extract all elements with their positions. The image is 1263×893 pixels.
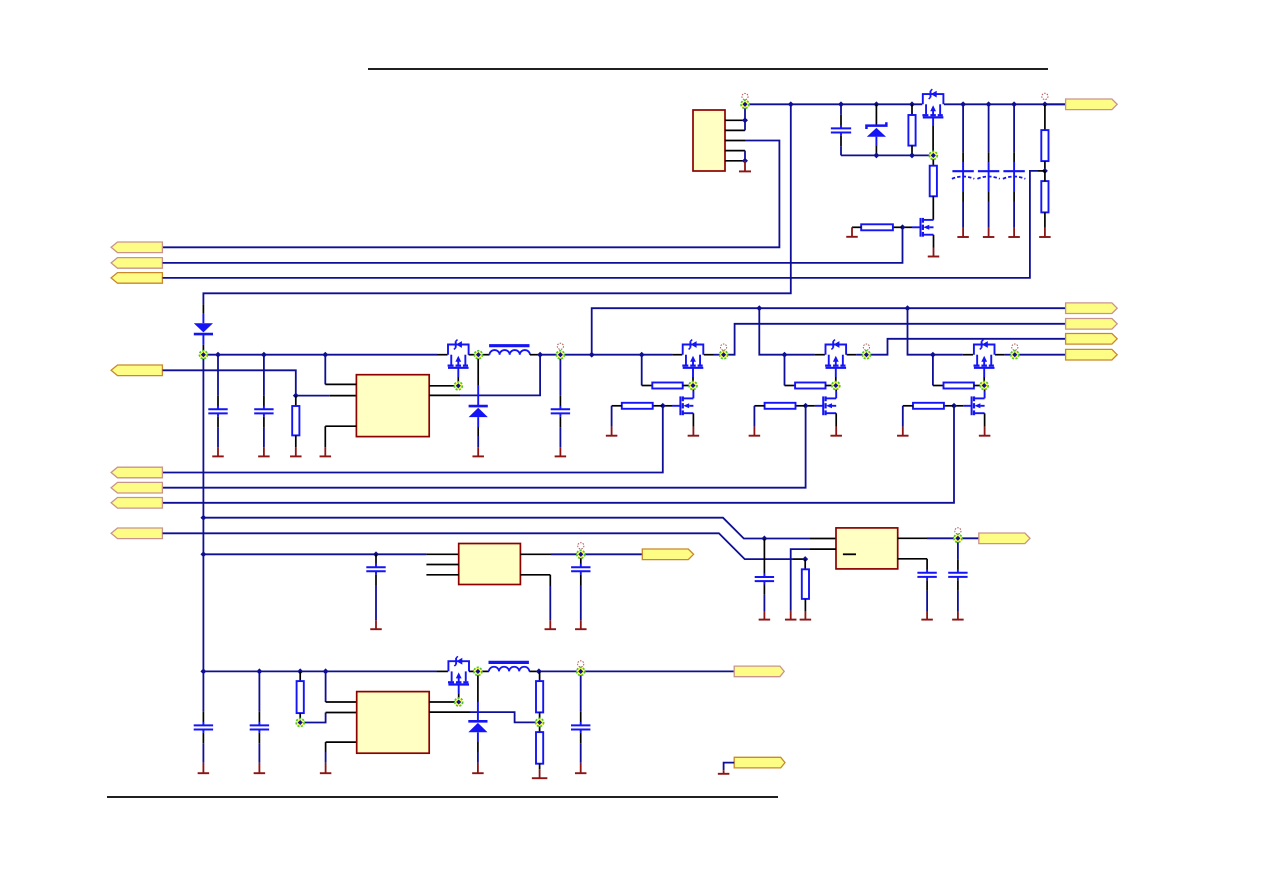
wire U6 pin 3 to ground [326,741,357,743]
port VOUT-C (right) [642,549,693,560]
transistor Q2 (N-MOSFET gate driver) [921,218,934,237]
junction Q1b gate [660,403,666,409]
resistor R9 (divider bottom) [1041,181,1048,212]
node Q3 gate [454,382,462,390]
wire buck output rail [540,354,592,356]
junction on pin 5 [742,158,748,164]
ground at R10 [290,447,302,456]
resistor R6 [932,155,934,165]
junction R12 top [297,668,303,674]
wire R2b to ground [753,406,755,427]
transistor Q1a (P-MOSFET load switch) [682,340,703,368]
no-ERC marker above SW2 output [863,344,869,350]
wire Q4 drain to SW node [469,670,478,672]
node U5 output [954,534,962,542]
wire U6 gate drive [429,701,455,703]
resistor R2b (gate pull-down) [796,405,806,407]
junction C5 [960,101,966,107]
wire U6 feedback [429,711,470,713]
port P1 (left, row 1) [111,242,162,253]
ground at C6 [983,228,995,237]
junction Q2b gate [803,403,809,409]
wire Q2 gate [912,226,921,228]
wire U3 pin 1 to rail [324,355,326,385]
node Q1 gate [929,151,937,159]
capacitor C16 [194,671,213,762]
port OUT3 (right) [1066,334,1118,345]
inductor L1 [478,354,489,356]
wire U5 sense pin [898,558,927,560]
transistor Q4 (P-MOSFET buck switch B) [448,656,469,684]
ground at R3b [897,427,909,436]
ground at U3 [320,447,332,456]
capacitor C6 (bulk) [988,104,990,152]
port EN1 (left) [111,467,162,478]
node Q1a gate [689,382,697,390]
wire U4 output to port [581,553,643,555]
wire Q2b drain to gate node [835,391,837,398]
diode D1 (input) [194,323,213,334]
ground at U6 [320,763,332,773]
ground at C5 [957,228,969,237]
junction R5 bottom [909,152,915,158]
wire top rail left segment [745,103,922,105]
node VIN-A [741,100,749,108]
junction D4 top [873,101,879,107]
port OUT2 (right) [1066,319,1118,330]
title block bottom rule [107,796,778,798]
ground at C7 [1008,228,1020,237]
node SW (switch node) [474,351,482,359]
ground at R7 [846,227,858,237]
node SW1 output [720,351,728,359]
node input rail [199,351,207,359]
ground at Q3b [979,427,991,436]
port EN4 (left) [111,528,162,539]
junction C9 [261,352,267,358]
junction bus to LDO A input [200,551,206,557]
junction bus to LDO B input [200,515,206,521]
capacitor C7 (bulk) [1013,104,1015,152]
junction R11 [802,556,808,562]
port EN3 (left) [111,498,162,509]
node SW-B [474,667,482,675]
wire Q1b drain to gate node [692,391,694,398]
no-ERC marker above SW3 output [1012,344,1018,350]
junction U6 pin1 riser [323,668,329,674]
wire R12 to U6 pin 2 [300,713,325,723]
capacitor C8 [208,355,227,448]
ground at R9 [1039,228,1051,237]
wire top rail right segment [944,103,1066,105]
junction on pin 1 [742,117,748,123]
wire enable net SW1 [163,406,663,473]
wire rail to load switch 1 [592,354,673,356]
resistor R13 (feedback top) [539,671,541,681]
wire bottom buck output rail [539,670,734,672]
ground at U5 pin2 [785,611,797,620]
wire divider sense to port P3 net [1038,170,1045,172]
wire Q2b source to ground [835,413,837,426]
wire SW3 output to port row 4 [1015,354,1066,356]
ground at D3 [472,763,484,773]
junction SW1 gate resistor tap [639,352,645,358]
pin 5 of J1 [725,160,745,162]
wire U5 pin 2 to ground [810,548,836,550]
junction R5 top [909,101,915,107]
title block top rule [368,68,1048,70]
transistor Q1 (P-MOSFET high side) [922,89,943,117]
marking inside U5 [843,553,856,555]
ground at Q2b [830,427,842,436]
port P2 (left, row 2) [111,258,162,269]
ground at C12 [921,611,933,620]
resistor R7 (gate pull-down) [893,226,903,228]
resistor R8 (divider top) [1044,104,1046,130]
wire Q2a output lead [847,354,857,356]
ground at C13 [952,611,964,620]
node Q4 gate [455,698,463,706]
ground at Q2 [928,248,940,257]
pin 1 of J1 [725,119,745,121]
wire Q1 gate [932,118,934,126]
capacitor C11 (LDO B input) [763,539,765,574]
wire Q1b source to ground [692,413,694,426]
resistor R12 [299,671,301,681]
ground at R1b [606,427,618,436]
no-ERC marker above output [578,661,584,667]
port VIN (left) [111,365,162,376]
wire U3 gate drive output [429,385,455,387]
capacitor C14 (LDO A input) [366,554,385,620]
junction Q3b gate [951,403,957,409]
transistor Q3a (P-MOSFET load switch) [974,340,995,368]
ground at C8 [212,447,224,456]
capacitor C18 (output) [571,671,590,762]
port OUT1 (right) [1066,303,1118,314]
wire SW1 output to port row 2 [724,324,1066,355]
wire EN4 to LDO B enable [163,533,793,559]
port VOUT-A (top right) [1066,99,1118,110]
wire rail riser to switch bus [592,308,1066,355]
junction L1 out [537,352,543,358]
junction C11 [761,536,767,542]
no-ERC marker above U5 output [955,528,961,534]
ground at U4 [545,620,557,629]
wire Q3a output lead [995,354,1005,356]
wire U5 output [898,537,927,539]
junction D4 bottom [873,152,879,158]
capacitor C10 (output) [551,355,570,448]
diode D2 (catch) [477,355,479,385]
wire U3 pin 3 to ground [325,425,356,427]
port EN2 (left) [111,482,162,493]
ground at C15 [575,620,587,629]
junction SW2 gate resistor tap [782,352,788,358]
wire bus to LDO B input [203,518,810,539]
ground at C18 [575,763,587,773]
junction U3 pin1 [322,352,328,358]
diode D3 (catch) [477,671,479,702]
port OUT4 (right) [1066,349,1118,360]
junction L2 out [536,668,542,674]
resistor R1a (gate pull-up) [642,385,653,387]
ground at C14 [370,620,382,629]
regulator U4 (LDO A) [459,544,521,585]
ground at C10 [555,447,567,456]
wire Q2 gate to port P2 net [163,227,903,263]
zener diode D4 [875,104,877,125]
no-ERC marker above node VIN-A [742,93,748,99]
wire Q1a output lead [704,354,714,356]
junction bus drop 2 [756,305,762,311]
junction C8 [215,352,221,358]
port P3 (left, row 3) [111,273,162,284]
ground at R11 [800,611,812,620]
ground at C16 [198,763,210,773]
wire SW1 tap drop [641,355,643,386]
junction R10 top [293,393,299,399]
wire U4 ground pin [520,574,550,576]
no-ERC marker above buck output [557,343,563,349]
ground at GNDREF [718,770,730,774]
resistor R10 [295,396,297,406]
wire Q2a gate [835,368,837,377]
stub U4 pin 3 [426,574,458,576]
wire Q3b source to ground [984,413,986,426]
junction C7 [1011,101,1017,107]
capacitor C13 (U5 output) [948,538,967,611]
transistor Q3b (N-MOSFET driver) [972,396,985,415]
junction bottom rail corner [200,668,206,674]
wire J1 pins 4-5 [744,151,746,161]
wire to U3 pin 2 [296,395,330,397]
node U4 output [577,550,585,558]
wire R3b to ground [902,406,904,427]
wire Q2b gate [815,405,823,407]
no-ERC marker above SW1 output [721,344,727,350]
port GNDREF (right) [734,757,785,768]
ground at C11 [759,611,771,620]
wire R1b to ground [611,406,613,427]
wire SW2 output to port row 3 [866,339,1065,355]
transistor Q3 (P-MOSFET buck switch) [448,340,469,368]
wire Q3b gate [963,405,971,407]
ground at C9 [258,447,270,456]
node SW2 output [862,351,870,359]
wire VIN port to U3 enable [163,370,296,395]
wire gate rail bottom [841,154,933,156]
wire J1 pin 3 to port net [163,141,780,248]
capacitor C4 [831,104,851,155]
node feedback divider [536,718,544,726]
wire Q2 source to ground [933,235,935,248]
junction C14 [373,551,379,557]
wire SW2 tap drop [784,355,786,386]
wire U3 feedback to output [429,394,460,396]
resistor R2a (gate pull-up) [785,385,796,387]
node buck output [556,351,564,359]
junction rail riser [589,352,595,358]
node bottom buck output [577,667,585,675]
ground at Q1b [688,427,700,436]
wire input rail drop to lower circuits [203,104,790,304]
wire Q1b gate [672,405,680,407]
connector J1 [693,110,725,171]
wire U5 output to port [958,537,979,539]
node SW3 output [1011,351,1019,359]
inductor L2 [478,670,489,672]
capacitor C17 [250,671,269,762]
wire Q3 gate [457,368,459,377]
wire U6 pin 1 to rail [325,671,327,702]
junction SW3 gate resistor tap [930,352,936,358]
transistor Q1b (N-MOSFET driver) [680,396,693,415]
wire Q3 drain to SW node [469,354,479,356]
resistor R1b (gate pull-down) [653,405,663,407]
wire LDO A input rail [203,553,426,555]
junction C6 [986,101,992,107]
wire Q3a gate [983,368,985,377]
wire J1 pins 1-2 to VIN node [744,104,746,130]
port VOUT-B (right) [979,533,1030,544]
wire GNDREF port to ground [724,763,735,771]
wire Q1a gate [692,368,694,377]
node Q2a gate [832,382,840,390]
ground at R2b [749,427,761,436]
junction divider mid [1042,168,1048,174]
junction bus drop 3 [905,305,911,311]
wire to output port [1045,103,1066,105]
resistor R14 (feedback bottom) [539,726,541,732]
junction divider top [1042,101,1048,107]
junction rail drop [788,101,794,107]
ground at D2 [472,447,484,456]
stub U4 pin 2 [426,564,458,566]
ground at C17 [254,763,266,773]
transistor Q2b (N-MOSFET driver) [823,396,836,415]
wire bottom buck input rail [203,670,437,672]
resistor R3b (gate pull-down) [944,405,954,407]
ground at R14 [532,769,548,778]
pin 3 of J1 [725,140,745,142]
wire main input bus down the left side [202,355,204,672]
ground at J1 [739,161,751,172]
regulator U6 (buck controller B) [357,692,430,754]
regulator U5 (LDO B) [836,528,898,569]
capacitor C5 (bulk) [962,104,964,152]
junction C17 [256,668,262,674]
capacitor C12 (U5 output) [917,569,936,611]
wire Q3b drain to gate node [984,391,986,398]
node R12 bottom [296,719,304,727]
wire enable net SW3 [163,406,954,503]
node Q3a gate [980,382,988,390]
transistor Q2a (P-MOSFET load switch) [825,340,846,368]
wire enable net SW2 [163,406,806,488]
resistor R5 (gate pull-up) [911,104,913,115]
regulator U3 (buck controller) [356,375,429,437]
wire SW3 tap drop [932,355,934,386]
no-ERC marker above U4 output [578,543,584,549]
resistor R11 (enable pull) [804,559,806,569]
wire mid rail [203,354,437,356]
resistor R3a (gate pull-up) [933,385,944,387]
capacitor C9 [254,355,273,448]
pin 2 of J1 [725,129,745,131]
wire Q4 gate [458,685,460,694]
junction C4 top [838,101,844,107]
junction Q2 gate [900,224,906,230]
pin 4 of J1 [725,150,745,152]
wire U4 output [520,553,551,555]
wire bus drop to switch 3 [908,308,963,355]
capacitor C15 (LDO A output) [571,554,590,620]
no-ERC marker above output node [1042,93,1048,99]
wire bus drop to switch 2 [759,308,814,355]
port VOUT-D (right) [734,666,784,677]
